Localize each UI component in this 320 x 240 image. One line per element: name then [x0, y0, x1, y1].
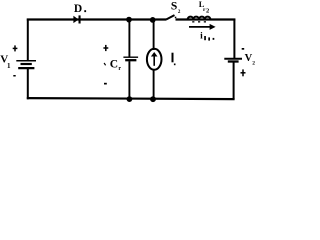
minus sign V1 [13, 75, 15, 77]
wire top (node a) [27, 18, 167, 20]
svg-text:D: D [74, 3, 82, 15]
svg-text:r: r [118, 66, 121, 72]
node dot top (Cr) [126, 17, 132, 23]
inductor winding underside marks [192, 21, 194, 22]
current arrow iLr2 [189, 24, 216, 30]
node dot bottom (Cr) [126, 96, 132, 102]
svg-text:C: C [110, 59, 118, 71]
label V1 [0, 54, 11, 71]
svg-text:2: 2 [206, 7, 209, 14]
node dot bottom (I1) [150, 96, 156, 102]
current source I1 [147, 20, 162, 99]
capacitor Cr [123, 20, 138, 99]
minus sign V2 [242, 48, 245, 50]
battery V1 [16, 61, 36, 68]
battery V2 [224, 59, 242, 62]
label Lr2 [199, 0, 209, 14]
label Cr [104, 59, 121, 72]
label iLr2 [200, 31, 214, 41]
label S2 [171, 0, 181, 15]
diode D1 [73, 15, 80, 23]
svg-text:2: 2 [252, 61, 255, 67]
plus sign V1 [13, 45, 18, 51]
switch S2 [166, 15, 174, 19]
label D1 [74, 3, 86, 15]
svg-text:S: S [171, 0, 177, 12]
svg-text:1: 1 [7, 62, 11, 70]
inductor Lr2 [188, 17, 211, 20]
wire bottom (node b) [27, 98, 235, 99]
wire left (V1 branch) [27, 19, 29, 61]
label V2 [245, 53, 256, 67]
svg-text:i: i [200, 31, 203, 41]
wire top right (switch to inductor to corner) [176, 18, 236, 20]
node dot top (I1) [150, 17, 156, 23]
wire right (V2 branch) [233, 19, 235, 59]
minus sign Cr [104, 83, 107, 85]
label I1 [172, 53, 176, 65]
plus sign V2 [241, 69, 246, 76]
plus sign Cr [103, 45, 108, 51]
